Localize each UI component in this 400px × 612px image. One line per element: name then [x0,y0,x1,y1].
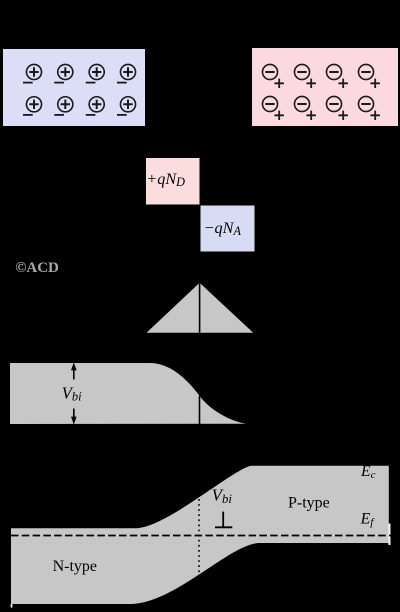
junction line in E-field plot [199,283,201,333]
svg-text:N-type: N-type [53,558,97,575]
acceptor symbol row2 col3 [326,96,347,120]
acceptor symbol row2 col4 [358,96,379,120]
acceptor symbol row1 col4 [358,64,379,88]
acceptor symbol row1 col2 [294,64,315,88]
P-region carrier box [252,48,398,126]
svg-text:©ACD: ©ACD [15,260,59,276]
donor symbol row2 col4 [117,97,136,115]
acceptor symbol row2 col1 [262,96,283,120]
donor symbol row2 col3 [86,97,105,115]
potential curve fill [10,363,246,424]
electric field triangle [147,283,254,333]
junction line in potential plot [199,396,201,424]
right axis sliver [388,524,390,546]
donor symbol row2 col2 [54,97,73,115]
perpendicular arrow symbol [215,512,232,528]
+qND charge density box [146,158,200,205]
donor symbol row1 col1 [23,64,42,82]
junction dotted line [198,499,200,573]
band diagram ribbon [11,466,389,604]
donor symbol row1 col3 [86,64,105,82]
Ef fermi level dashed line [11,535,391,537]
-qNA charge density box [201,206,255,252]
svg-text:P-type: P-type [288,495,330,512]
acceptor symbol row1 col3 [326,64,347,88]
left axis stub [11,604,13,608]
donor symbol row1 col2 [54,64,73,82]
Vbi double arrow [71,362,77,424]
donor symbol row1 col4 [117,64,136,82]
donor ion symbols (circled plus with electron minus) [23,64,136,114]
acceptor symbol row2 col2 [294,96,315,120]
N-region carrier box [3,49,145,126]
acceptor symbol row1 col1 [262,64,283,88]
donor symbol row2 col1 [23,97,42,115]
acceptor ion symbols (circled minus with hole plus) [262,64,379,120]
